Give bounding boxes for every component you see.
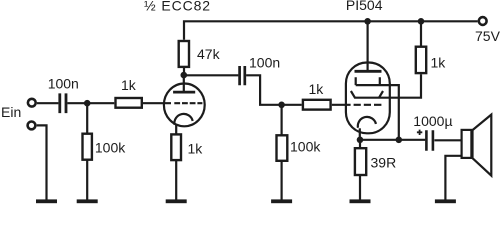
resistor R6 100k — [277, 135, 288, 161]
svg-text:1k: 1k — [309, 81, 325, 97]
capacitor C1 100n — [60, 93, 66, 113]
svg-text:75V: 75V — [475, 28, 500, 44]
node anode V1 — [181, 72, 188, 79]
anode bar V2 — [355, 70, 382, 73]
node junction grid1 — [84, 100, 91, 107]
ground R6 — [271, 199, 292, 203]
wire speaker to ground — [445, 156, 460, 200]
svg-text:½ ECC82: ½ ECC82 — [144, 0, 211, 14]
resistor R1 47k — [179, 41, 189, 67]
wire R1 bottom to anode node — [183, 67, 185, 75]
node anode rail junction — [364, 18, 371, 25]
tube V1 triode — [164, 84, 205, 127]
grid dashes V1 — [174, 102, 202, 104]
svg-text:1k: 1k — [121, 77, 137, 93]
wire rail to R7 — [420, 21, 422, 45]
wire R6 to ground — [281, 161, 283, 200]
svg-text:100k: 100k — [290, 139, 321, 155]
node junction grid2 — [278, 102, 285, 109]
polarity plus C3 — [417, 130, 422, 135]
svg-text:1k: 1k — [188, 141, 204, 157]
wire cathode V2 down — [359, 128, 361, 140]
capacitor C3 1000µ — [426, 130, 433, 151]
resistor R8 39R — [355, 148, 366, 175]
grid dashes V2 — [354, 104, 382, 106]
wire input bottom to ground — [37, 125, 47, 200]
anode bar V1 — [173, 91, 195, 94]
ground R3 — [77, 199, 98, 203]
wire R4 to ground — [175, 160, 177, 200]
svg-text:39R: 39R — [371, 155, 397, 171]
speaker LS1 — [462, 115, 492, 176]
wire cathode to C3 — [360, 139, 425, 141]
wire C3 to speaker — [434, 139, 460, 141]
wire junction down to R3 — [86, 103, 88, 133]
resistor R3 100k — [83, 134, 92, 160]
resistor R4 1k — [171, 134, 181, 160]
svg-text:100n: 100n — [249, 54, 280, 70]
node rail junction R7 — [418, 18, 425, 25]
tube V2 PI504 — [346, 63, 390, 134]
terminal input bottom — [28, 122, 36, 130]
capacitor C2 100n — [240, 66, 245, 85]
svg-text:100n: 100n — [48, 76, 79, 92]
ground input — [36, 199, 57, 203]
wire junction down to R6 — [281, 105, 283, 135]
ground R8 — [350, 199, 371, 203]
wire R2 to tube V1 grid — [143, 102, 171, 104]
svg-text:47k: 47k — [197, 46, 221, 62]
wire R8 to ground — [359, 175, 361, 200]
svg-text:Ein: Ein — [1, 104, 21, 120]
cathode V2 — [358, 117, 376, 128]
wire cathode V1 to R4 — [175, 124, 177, 134]
wire supply rail — [184, 21, 478, 40]
ground speaker — [435, 199, 456, 203]
wire input top to C1 — [37, 102, 58, 104]
resistor R7 1k — [416, 47, 426, 73]
node screen-cathode junction — [396, 137, 403, 144]
terminal 75V — [479, 17, 487, 25]
svg-text:100k: 100k — [95, 139, 126, 155]
wire anode lead into V1 — [183, 75, 185, 91]
resistor R5 1k — [303, 100, 331, 110]
resistor R2 1k — [116, 98, 142, 108]
node cathode junction — [357, 137, 364, 144]
wire R3 to ground — [86, 160, 88, 200]
wire anode V2 to rail — [367, 21, 369, 70]
wire cathode junction to R8 — [359, 140, 361, 148]
wire anode node to C2 — [184, 74, 239, 76]
terminal input top — [28, 99, 36, 107]
svg-text:1k: 1k — [431, 55, 447, 71]
wire R5 to tube V2 grid — [332, 104, 351, 106]
beam plates V2 — [351, 74, 421, 97]
wire C2 to grid line 2 — [246, 75, 302, 105]
screen grid V2 — [356, 77, 399, 140]
ground R4 — [166, 199, 187, 203]
cathode V1 — [174, 114, 192, 125]
svg-text:1000µ: 1000µ — [413, 113, 452, 129]
svg-text:PI504: PI504 — [346, 0, 383, 13]
wire C1 to R2 — [67, 102, 114, 104]
